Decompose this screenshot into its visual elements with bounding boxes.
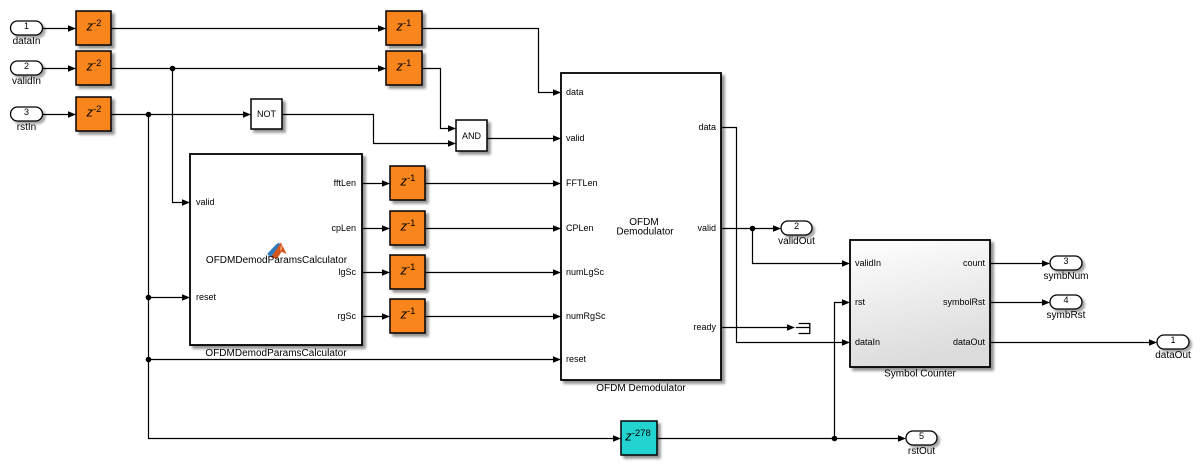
arrow into SymbolCounter rst xyxy=(842,299,850,306)
arrow into Z^-1 cpLen xyxy=(382,225,390,232)
wire validIn to calculator valid xyxy=(173,69,184,203)
svg-text:dataIn: dataIn xyxy=(13,36,41,47)
arrow into SymbolCounter dataIn xyxy=(842,339,850,346)
logic NOT block xyxy=(251,99,282,129)
svg-text:valid: valid xyxy=(566,133,585,143)
svg-text:symbNum: symbNum xyxy=(1043,271,1088,282)
delay Z^-1 block fftLen xyxy=(390,166,425,200)
svg-text:lgSc: lgSc xyxy=(338,267,356,277)
arrow into NOT xyxy=(243,111,251,118)
svg-text:cpLen: cpLen xyxy=(331,223,356,233)
arrow into terminator xyxy=(787,324,795,331)
node reset branch xyxy=(146,295,152,301)
arrow into OFDM numLgSc xyxy=(553,269,561,276)
delay Z^-1 block lgSc xyxy=(390,255,425,289)
arrow into calculator reset xyxy=(182,294,190,301)
arrow into Z^-278 xyxy=(613,435,621,442)
delay Z^-2 block 1 xyxy=(76,11,111,45)
wire count to symbNum xyxy=(990,263,1043,265)
svg-text:OFDM Demodulator: OFDM Demodulator xyxy=(596,383,686,394)
arrow into symbNum xyxy=(1042,260,1050,267)
svg-text:Demodulator: Demodulator xyxy=(616,227,674,238)
svg-text:dataOut: dataOut xyxy=(953,337,986,347)
arrow into Z^-2 2 xyxy=(68,65,76,72)
arrow into Z^-1 top1 xyxy=(378,25,386,32)
svg-text:reset: reset xyxy=(196,292,217,302)
arrow into Z^-1 top2 xyxy=(378,65,386,72)
svg-text:rst: rst xyxy=(855,297,865,307)
arrow into SymbolCounter validIn xyxy=(842,260,850,267)
svg-text:validOut: validOut xyxy=(778,236,815,247)
wire OFDM valid out to validOut xyxy=(721,228,774,230)
svg-text:Symbol Counter: Symbol Counter xyxy=(884,369,956,380)
arrow into OFDM numRgSc xyxy=(553,313,561,320)
wire dataIn row xyxy=(43,29,555,93)
svg-text:AND: AND xyxy=(462,131,482,141)
svg-text:reset: reset xyxy=(566,354,587,364)
svg-text:data: data xyxy=(698,122,716,132)
wire rstIn vertical bus xyxy=(149,115,615,439)
svg-text:OFDMDemodParamsCalculator: OFDMDemodParamsCalculator xyxy=(206,255,348,266)
svg-text:CPLen: CPLen xyxy=(566,223,594,233)
svg-text:4: 4 xyxy=(1063,295,1068,305)
arrow into OFDM data xyxy=(553,89,561,96)
logic AND block xyxy=(456,120,487,151)
svg-text:valid: valid xyxy=(196,197,215,207)
arrow into calculator valid xyxy=(182,199,190,206)
arrow into symbRst xyxy=(1042,299,1050,306)
wire rstIn row xyxy=(43,115,450,144)
svg-text:valid: valid xyxy=(697,223,716,233)
outport 5 rstOut xyxy=(906,431,937,457)
delay Z^-2 block 2 xyxy=(76,51,111,85)
svg-text:5: 5 xyxy=(919,431,924,441)
node valid branch xyxy=(750,226,756,232)
delay Z^-1 block cpLen xyxy=(390,211,425,245)
wire lgSc xyxy=(362,272,554,274)
wire valid junction to SymbolCounter validIn xyxy=(753,229,844,264)
svg-text:data: data xyxy=(566,87,584,97)
arrow into Z^-1 lgSc xyxy=(382,269,390,276)
wire rgSc xyxy=(362,316,554,318)
wire OFDM ready to terminator xyxy=(721,327,788,329)
svg-text:1: 1 xyxy=(24,21,29,31)
wire validIn row xyxy=(43,69,450,129)
svg-text:dataOut: dataOut xyxy=(1155,350,1191,361)
arrow into AND lower xyxy=(448,140,456,147)
arrow into Z^-2 3 xyxy=(68,111,76,118)
svg-text:symbRst: symbRst xyxy=(1047,310,1086,321)
node OFDM reset branch xyxy=(146,357,152,363)
wire OFDM data out to SymbolCounter dataIn xyxy=(721,128,843,343)
MATLAB function icon xyxy=(268,243,287,259)
svg-text:FFTLen: FFTLen xyxy=(566,178,598,188)
svg-text:numRgSc: numRgSc xyxy=(566,311,606,321)
arrow into OFDM FFTLen xyxy=(553,180,561,187)
wire rst to OFDM reset xyxy=(149,359,555,361)
svg-text:validIn: validIn xyxy=(855,258,881,268)
svg-text:dataIn: dataIn xyxy=(855,337,880,347)
arrow into OFDM valid xyxy=(553,135,561,142)
delay Z^-1 block top2 xyxy=(386,51,422,85)
node rstIn branch xyxy=(146,112,152,118)
svg-text:rstOut: rstOut xyxy=(908,446,935,457)
svg-text:count: count xyxy=(963,258,986,268)
outport 4 symbRst xyxy=(1047,295,1086,321)
svg-text:rgSc: rgSc xyxy=(337,311,356,321)
inport 2 validIn xyxy=(11,61,43,87)
outport 2 validOut xyxy=(778,221,815,247)
svg-text:ready: ready xyxy=(693,322,716,332)
svg-text:NOT: NOT xyxy=(257,109,277,119)
node validIn branch xyxy=(170,66,176,72)
svg-text:3: 3 xyxy=(24,107,29,117)
arrow into validOut xyxy=(773,225,781,232)
svg-text:3: 3 xyxy=(1063,256,1068,266)
svg-text:OFDMDemodParamsCalculator: OFDMDemodParamsCalculator xyxy=(205,348,347,359)
delay Z^-278 block xyxy=(621,421,657,455)
block Symbol Counter xyxy=(850,240,990,367)
delay Z^-2 block 3 xyxy=(76,97,111,131)
wire delayed rst to rstOut xyxy=(657,438,899,440)
arrow into Z^-1 rgSc xyxy=(382,313,390,320)
svg-text:symbolRst: symbolRst xyxy=(943,297,986,307)
node delayed rst branch xyxy=(832,436,838,442)
wire symbolRst to symbRst xyxy=(990,302,1043,304)
arrow into Z^-1 fftLen xyxy=(382,180,390,187)
delay Z^-1 block top1 xyxy=(386,11,422,45)
svg-text:fftLen: fftLen xyxy=(334,178,356,188)
delay Z^-1 block rgSc xyxy=(390,299,425,333)
terminator on ready xyxy=(796,323,810,334)
arrow into OFDM CPLen xyxy=(553,225,561,232)
arrow into rstOut xyxy=(898,435,906,442)
svg-text:2: 2 xyxy=(24,61,29,71)
inport 1 dataIn xyxy=(11,21,43,47)
inport 3 rstIn xyxy=(11,107,43,133)
outport 3 symbNum xyxy=(1043,256,1088,282)
wire fftLen xyxy=(362,183,554,185)
svg-text:rstIn: rstIn xyxy=(17,122,36,133)
wire AND output to OFDM valid xyxy=(487,138,554,140)
svg-text:validIn: validIn xyxy=(12,76,41,87)
svg-text:1: 1 xyxy=(1170,335,1175,345)
arrow into dataOut port xyxy=(1149,339,1157,346)
block OFDM Demodulator xyxy=(561,73,721,380)
outport 1 dataOut xyxy=(1155,335,1191,361)
svg-text:2: 2 xyxy=(794,221,799,231)
svg-text:numLgSc: numLgSc xyxy=(566,267,605,277)
arrow into AND upper xyxy=(448,125,456,132)
arrow into Z^-2 1 xyxy=(68,25,76,32)
subsystem OFDMDemodParamsCalculator xyxy=(190,154,362,345)
wire dataOut to port dataOut xyxy=(990,342,1150,344)
wire cpLen xyxy=(362,228,554,230)
wire rst to calculator reset xyxy=(149,297,184,299)
wire rst junction to SymbolCounter rst xyxy=(835,303,844,439)
arrow into OFDM reset xyxy=(553,356,561,363)
